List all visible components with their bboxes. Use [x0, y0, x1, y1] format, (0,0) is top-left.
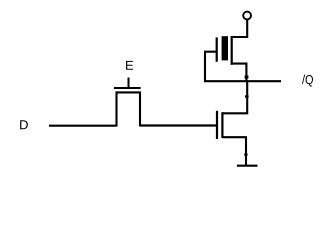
transistor Q2 channel line [221, 112, 223, 138]
transistor Q2 (driver NMOS) gate line [216, 111, 218, 139]
node D label [20, 120, 28, 129]
node /Q label [302, 75, 313, 87]
wire from D to pass transistor Q1 source [49, 125, 117, 127]
node E label [126, 61, 133, 70]
wire joint tick above output junction [245, 76, 249, 79]
wire from Q1 drain to transistor Q2 gate [140, 124, 218, 126]
wire output node to /Q [204, 80, 281, 82]
supply terminal circle [243, 12, 251, 20]
transistor Q1 (pass transistor) channel hump [117, 92, 141, 126]
ground [237, 165, 258, 167]
transistor Q1 gate bar [114, 87, 141, 89]
wire joint tick on ground stem [244, 154, 247, 156]
wire joint tick on Q2 drain vertical [245, 95, 249, 97]
wire Q2 source lead down to ground [222, 137, 246, 166]
wire Q3 drain lead to supply stem [231, 20, 248, 37]
wire Q3 source lead down to output node [231, 64, 247, 82]
transistor Q1 gate stub wire [128, 78, 130, 89]
wire Q3 gate feedback to output node [205, 52, 217, 81]
transistor Q3 depletion channel bar [222, 36, 228, 60]
wire Q2 drain lead up to output node [222, 80, 247, 113]
transistor Q3 source-drain bracket [231, 36, 233, 65]
transistor Q3 (depletion load) gate line [216, 37, 218, 61]
